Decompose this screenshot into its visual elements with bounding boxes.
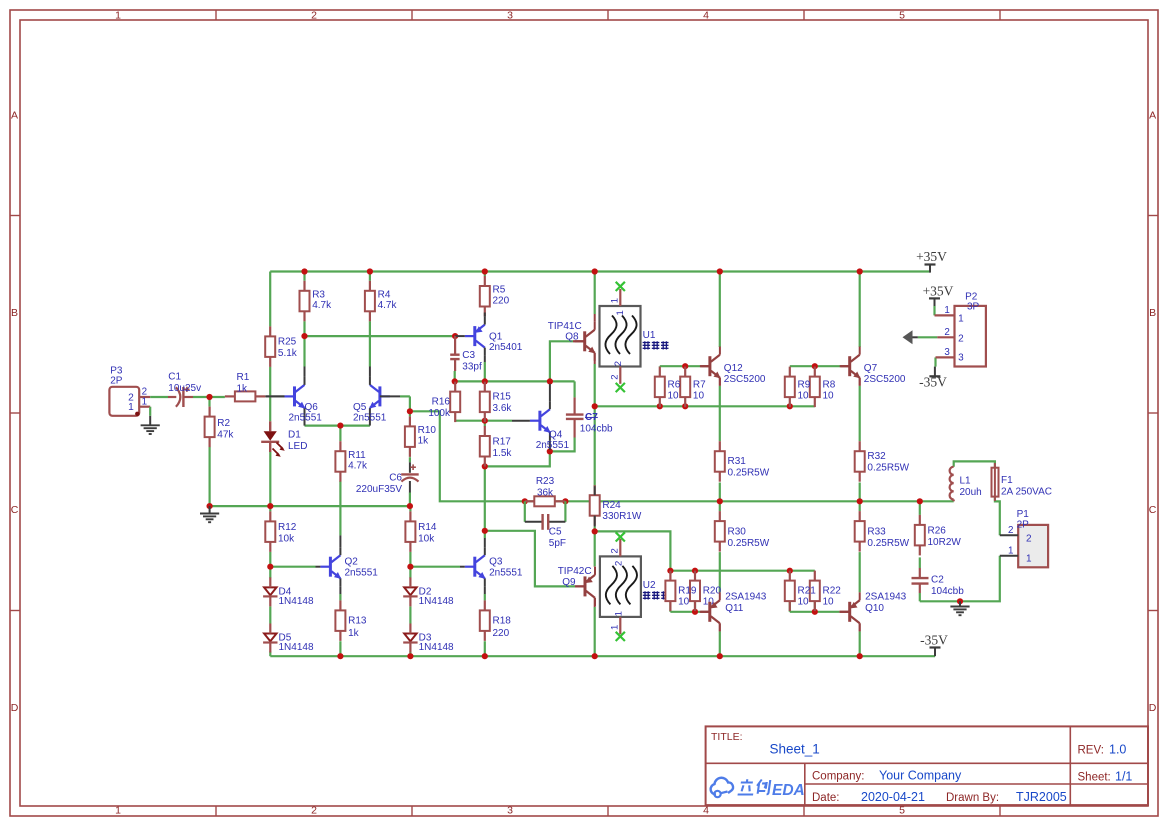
resistor R13 1k bbox=[335, 600, 366, 641]
junction bbox=[407, 408, 413, 414]
junction bbox=[667, 568, 673, 574]
svg-text:2: 2 bbox=[613, 361, 624, 366]
svg-text:R8: R8 bbox=[823, 380, 836, 391]
wire Q10 collector to -35V rail bbox=[859, 631, 861, 656]
wire P1 pin 1 to speaker ground bbox=[920, 556, 1000, 602]
svg-text:2n5551: 2n5551 bbox=[289, 413, 323, 424]
svg-text:1N4148: 1N4148 bbox=[419, 642, 454, 653]
resistor R16 100k bbox=[450, 382, 460, 423]
wire R24 bottom node bbox=[594, 527, 596, 567]
power +35V top rail symbol bbox=[916, 249, 947, 273]
svg-text:2SC5200: 2SC5200 bbox=[864, 374, 906, 385]
svg-text:10: 10 bbox=[798, 597, 810, 608]
svg-text:A: A bbox=[1149, 110, 1156, 122]
svg-text:36k: 36k bbox=[537, 488, 554, 499]
svg-text:2n5551: 2n5551 bbox=[353, 413, 387, 424]
junction bbox=[592, 268, 598, 274]
svg-text:R21: R21 bbox=[798, 586, 817, 597]
svg-text:1: 1 bbox=[115, 805, 121, 817]
wire R12 stubs bbox=[269, 506, 271, 578]
svg-text:1: 1 bbox=[609, 298, 620, 303]
junction bbox=[407, 503, 413, 509]
wire input node: C1 to R1, R2 top bbox=[193, 397, 225, 407]
transistor Q3 2n5551 bbox=[460, 538, 523, 594]
wire Q7 collector to rail bbox=[859, 272, 861, 348]
capacitor C2 104cbb bbox=[912, 568, 965, 597]
junction bbox=[267, 503, 273, 509]
junction bbox=[337, 653, 343, 659]
connector P3 2P bbox=[109, 366, 150, 416]
wire ground line left bbox=[210, 505, 410, 507]
svg-text:10: 10 bbox=[668, 390, 680, 401]
svg-text:1k: 1k bbox=[348, 628, 360, 639]
junction bbox=[407, 653, 413, 659]
transistor Q2 2n5551 bbox=[316, 535, 379, 594]
resistor R2 47k bbox=[205, 407, 235, 448]
diode D1 LED bbox=[261, 421, 307, 457]
junction bbox=[482, 528, 488, 534]
resistor R10 1k bbox=[405, 416, 436, 457]
svg-text:4.7k: 4.7k bbox=[348, 461, 368, 472]
connector P2 3P bbox=[935, 292, 986, 367]
ground symbol under P3 bbox=[149, 416, 151, 426]
svg-text:R3: R3 bbox=[312, 289, 325, 300]
resistor R8 10 bbox=[810, 367, 836, 408]
svg-text:B: B bbox=[1149, 307, 1156, 319]
svg-text:R17: R17 bbox=[493, 436, 512, 447]
resistor R15 3.6k bbox=[480, 382, 513, 423]
svg-text:R13: R13 bbox=[348, 615, 367, 626]
svg-text:Q4: Q4 bbox=[549, 430, 563, 441]
svg-text:10u25v: 10u25v bbox=[168, 383, 201, 394]
wire R3/Q6-collector node to Q1 base bbox=[305, 321, 456, 366]
svg-text:R26: R26 bbox=[928, 525, 947, 536]
wire output rail to L1 bbox=[919, 501, 921, 515]
svg-text:0.25R5W: 0.25R5W bbox=[867, 463, 909, 474]
svg-text:TJR2005: TJR2005 bbox=[1016, 790, 1067, 804]
svg-text:Q8: Q8 bbox=[565, 332, 579, 343]
resistor R25 5.1k bbox=[265, 326, 298, 367]
junction bbox=[482, 418, 488, 424]
connector P1 2P bbox=[1000, 509, 1048, 567]
svg-text:2P: 2P bbox=[110, 376, 123, 387]
svg-text:1N4148: 1N4148 bbox=[419, 596, 454, 607]
wire -35V bottom rail bbox=[270, 655, 935, 657]
wire +35V to P2 pin 1 bbox=[933, 306, 935, 315]
wire R13 bottom to -35V rail bbox=[339, 641, 341, 656]
no-connect flag U2 pin2 bbox=[616, 532, 625, 541]
diode D5 1N4148 bbox=[263, 624, 314, 654]
svg-text:R5: R5 bbox=[493, 285, 506, 296]
junction bbox=[657, 403, 663, 409]
svg-text:R15: R15 bbox=[493, 392, 512, 403]
power +35V P2 symbol bbox=[923, 283, 954, 306]
wire R9 R8 line to Q7 base bbox=[790, 365, 841, 367]
svg-text:1: 1 bbox=[958, 313, 964, 324]
svg-text:Q1: Q1 bbox=[489, 332, 503, 343]
fuse F1 2A 250VAC bbox=[992, 463, 1052, 501]
svg-text:C6: C6 bbox=[389, 473, 402, 484]
junction bbox=[337, 423, 343, 429]
junction bbox=[682, 363, 688, 369]
junction bbox=[787, 403, 793, 409]
svg-text:2: 2 bbox=[1026, 533, 1032, 544]
svg-text:+35V: +35V bbox=[916, 249, 947, 264]
svg-text:U2: U2 bbox=[643, 580, 656, 591]
svg-text:1.0: 1.0 bbox=[1109, 743, 1126, 757]
junction bbox=[857, 653, 863, 659]
wire Q9 collector to -35V rail bbox=[594, 607, 596, 656]
wire emitter resistor line y406 bbox=[595, 405, 815, 407]
resistor R31 0.25R5W bbox=[715, 441, 770, 482]
transistor Q1 2n5401 PNP bbox=[455, 313, 523, 363]
wire Q5 base to R10/feedback node bbox=[400, 396, 410, 411]
wire R1 to Q6 base (dark pin) bbox=[265, 395, 284, 397]
svg-text:4.7k: 4.7k bbox=[378, 300, 398, 311]
svg-text:2n5401: 2n5401 bbox=[489, 342, 523, 353]
svg-text:10: 10 bbox=[823, 390, 835, 401]
svg-text:5: 5 bbox=[899, 10, 905, 22]
junction bbox=[857, 268, 863, 274]
transistor Q4 2n5551 bbox=[512, 384, 570, 451]
U1 pin numbers and labels bbox=[609, 298, 655, 380]
svg-text:2: 2 bbox=[609, 548, 620, 553]
junction bbox=[482, 268, 488, 274]
svg-text:2: 2 bbox=[609, 375, 620, 380]
junction bbox=[301, 333, 307, 339]
svg-text:D: D bbox=[11, 702, 19, 714]
svg-text:R6: R6 bbox=[668, 380, 681, 391]
svg-text:1.5k: 1.5k bbox=[493, 448, 513, 459]
svg-text:R11: R11 bbox=[348, 450, 366, 461]
ground symbol P2 pin2 (left arrow) bbox=[903, 330, 918, 344]
capacitor C1 10u25v polarized bbox=[150, 372, 201, 407]
svg-text:C7: C7 bbox=[585, 412, 598, 423]
U2 pin numbers and labels bbox=[609, 548, 656, 630]
junction bbox=[267, 564, 273, 570]
wire Q4 emitter node to C7 bottom bbox=[550, 438, 575, 452]
junction bbox=[301, 268, 307, 274]
wire C3/R16/R15 node line to C7 top bbox=[455, 362, 575, 397]
wire R24 node to R19/R20 top line bbox=[595, 531, 671, 570]
svg-text:1: 1 bbox=[142, 397, 147, 408]
transistor Q12 2SC5200 bbox=[700, 347, 766, 386]
wire Q3 collector stub bbox=[484, 531, 486, 538]
wire R30 bottom to Q11 emitter bbox=[719, 552, 721, 592]
svg-text:3: 3 bbox=[958, 352, 964, 363]
resistor R6 10 bbox=[655, 367, 681, 408]
transistor Q10 2SA1943 PNP bbox=[839, 591, 906, 631]
svg-text:10k: 10k bbox=[278, 533, 295, 544]
svg-text:D1: D1 bbox=[288, 429, 301, 440]
svg-text:-35V: -35V bbox=[920, 632, 948, 647]
svg-text:R30: R30 bbox=[728, 527, 747, 538]
LCEDA logo bbox=[711, 778, 805, 799]
svg-text:R2: R2 bbox=[217, 418, 230, 429]
wire x595 column to R24 bbox=[594, 406, 596, 486]
svg-text:10: 10 bbox=[693, 390, 705, 401]
svg-text:3: 3 bbox=[944, 347, 950, 358]
svg-text:1: 1 bbox=[115, 10, 121, 22]
wire R2 bottom to ground line bbox=[209, 447, 211, 506]
wire R11 bottom to Q2 collector bbox=[339, 481, 341, 536]
resistor R23 36k bbox=[525, 476, 566, 506]
wire R17 bottom to Q4 emitter node bbox=[485, 451, 550, 530]
junction bbox=[717, 268, 723, 274]
resistor R11 4.7k bbox=[335, 441, 368, 482]
svg-text:20uh: 20uh bbox=[960, 487, 982, 498]
junction bbox=[787, 568, 793, 574]
wire D2-D3 link bbox=[409, 607, 411, 624]
junction bbox=[717, 653, 723, 659]
junction bbox=[207, 503, 213, 509]
svg-text:5: 5 bbox=[899, 805, 905, 817]
svg-text:R24: R24 bbox=[602, 500, 621, 511]
resistor R9 10 bbox=[785, 367, 811, 408]
svg-text:R19: R19 bbox=[678, 586, 697, 597]
svg-text:1: 1 bbox=[1026, 554, 1032, 565]
junction bbox=[682, 403, 688, 409]
svg-text:3: 3 bbox=[507, 10, 513, 22]
svg-text:R4: R4 bbox=[378, 289, 391, 300]
svg-text:5.1k: 5.1k bbox=[278, 348, 298, 359]
svg-text:2SC5200: 2SC5200 bbox=[724, 374, 766, 385]
svg-text:R9: R9 bbox=[798, 380, 811, 391]
svg-text:C5: C5 bbox=[549, 526, 562, 537]
svg-text:Company:: Company: bbox=[812, 771, 864, 783]
wire L1 top to F1 bbox=[954, 461, 995, 467]
transistor Q7 2SC5200 bbox=[840, 347, 906, 386]
wire R30 top stub bbox=[719, 501, 721, 511]
svg-text:+35V: +35V bbox=[923, 283, 954, 298]
svg-text:R23: R23 bbox=[536, 476, 555, 487]
wire D3 to -35V rail bbox=[409, 652, 411, 657]
svg-text:2n5551: 2n5551 bbox=[489, 568, 523, 579]
ground symbol input bias bbox=[209, 506, 211, 513]
resistor R12 10k bbox=[265, 511, 296, 552]
svg-text:104cbb: 104cbb bbox=[580, 423, 613, 434]
svg-text:2P: 2P bbox=[1017, 519, 1030, 530]
wire feedback node to output rail bbox=[410, 411, 525, 501]
svg-text:Q6: Q6 bbox=[305, 402, 319, 413]
capacitor C6 220uF35V polarized bbox=[356, 462, 419, 495]
junction bbox=[917, 498, 923, 504]
svg-text:C: C bbox=[11, 504, 19, 516]
junction bbox=[857, 498, 863, 504]
wire Q2 base line from R12/D4 node bbox=[270, 566, 315, 568]
svg-text:1: 1 bbox=[1008, 545, 1013, 556]
wire R14/D2 node and Q3 base line bbox=[410, 506, 460, 578]
svg-text:4: 4 bbox=[703, 10, 709, 22]
svg-text:Q2: Q2 bbox=[345, 557, 359, 568]
svg-text:1N4148: 1N4148 bbox=[279, 642, 314, 653]
svg-text:0.25R5W: 0.25R5W bbox=[728, 468, 770, 479]
junction bbox=[547, 378, 553, 384]
wire C2 bottom stub bbox=[919, 593, 921, 601]
diode D2 1N4148 bbox=[403, 577, 454, 607]
svg-text:220: 220 bbox=[493, 628, 510, 639]
svg-text:47k: 47k bbox=[217, 429, 234, 440]
svg-text:R1: R1 bbox=[237, 372, 250, 383]
wire output rail center bbox=[525, 500, 954, 502]
wire Q12 collector to rail bbox=[719, 272, 721, 348]
transistor Q9 TIP42C PNP bbox=[558, 566, 595, 607]
wire Q8 emitter down x595 column bbox=[594, 364, 596, 406]
junction bbox=[547, 448, 553, 454]
resistor R30 0.25R5W bbox=[715, 511, 770, 551]
svg-text:10R2W: 10R2W bbox=[928, 537, 962, 548]
svg-text:R16: R16 bbox=[432, 397, 451, 408]
wire R10 top stub bbox=[409, 411, 411, 416]
wire R26 to C2 bbox=[919, 557, 921, 568]
junction bbox=[452, 333, 458, 339]
svg-text:REV:: REV: bbox=[1078, 745, 1104, 757]
svg-text:Q11: Q11 bbox=[725, 603, 744, 614]
resistor R18 220 bbox=[480, 600, 511, 641]
svg-text:10: 10 bbox=[678, 597, 690, 608]
wire Q9 base from Q3 collector node bbox=[485, 531, 576, 587]
svg-text:104cbb: 104cbb bbox=[931, 586, 964, 597]
wire D1 cathode to ground line bbox=[269, 452, 271, 506]
wire Q8 base down to node line bbox=[550, 341, 573, 381]
capacitor C7 104cbb bbox=[566, 397, 613, 437]
resistor R19 10 bbox=[665, 571, 696, 612]
svg-text:10: 10 bbox=[798, 390, 810, 401]
wire R32 bottom to rail / R33 top bbox=[859, 483, 861, 512]
svg-text:R33: R33 bbox=[867, 527, 886, 538]
svg-text:0.25R5W: 0.25R5W bbox=[867, 538, 909, 549]
no-connect flag U2 pin1 bbox=[616, 632, 625, 641]
capacitor C3 33pf bbox=[450, 336, 482, 373]
svg-text:R18: R18 bbox=[493, 615, 512, 626]
junction bbox=[482, 463, 488, 469]
svg-text:B: B bbox=[11, 307, 18, 319]
wire P2 pin 3 to -35V bbox=[934, 357, 936, 366]
svg-text:Q5: Q5 bbox=[353, 402, 367, 413]
wire Q6/Q5 emitters to R11 top bbox=[305, 426, 370, 442]
wire R31 bottom to output rail bbox=[719, 483, 721, 502]
wire R20 bottom stub bbox=[694, 602, 696, 612]
svg-text:R20: R20 bbox=[703, 586, 722, 597]
svg-text:D: D bbox=[1149, 702, 1157, 714]
svg-text:R22: R22 bbox=[823, 586, 842, 597]
svg-text:2SA1943: 2SA1943 bbox=[725, 591, 767, 602]
wire R21/R22 to Q10 base line bbox=[790, 611, 840, 613]
svg-text:R32: R32 bbox=[867, 451, 886, 462]
svg-text:Drawn By:: Drawn By: bbox=[946, 792, 999, 804]
junction bbox=[957, 598, 963, 604]
transistor Q6 2n5551 bbox=[266, 367, 322, 426]
svg-text:1: 1 bbox=[128, 402, 134, 413]
svg-text:C: C bbox=[1149, 504, 1157, 516]
svg-text:TITLE:: TITLE: bbox=[711, 731, 743, 743]
svg-text:1: 1 bbox=[614, 611, 625, 616]
wire C6 bottom to ground line bbox=[409, 493, 411, 507]
svg-text:R7: R7 bbox=[693, 380, 706, 391]
junction bbox=[592, 653, 598, 659]
wire Q3 emitter to R18 bbox=[484, 594, 486, 600]
svg-text:3P: 3P bbox=[967, 302, 980, 313]
svg-text:2n5551: 2n5551 bbox=[345, 568, 379, 579]
svg-text:C3: C3 bbox=[462, 350, 475, 361]
svg-text:TIP42C: TIP42C bbox=[558, 566, 592, 577]
power -35V P2 symbol bbox=[919, 367, 947, 390]
svg-text:R25: R25 bbox=[278, 337, 297, 348]
svg-text:2: 2 bbox=[311, 805, 317, 817]
svg-text:4.7k: 4.7k bbox=[312, 300, 332, 311]
svg-text:10: 10 bbox=[823, 597, 835, 608]
wire base resistor top line y570 bbox=[670, 570, 814, 572]
junction bbox=[452, 378, 458, 384]
svg-text:1N4148: 1N4148 bbox=[279, 596, 314, 607]
no-connect flag U1 pin1 bbox=[616, 282, 625, 291]
wire driver bias line R6 R7 to Q12 base bbox=[660, 365, 701, 367]
R24 dark pins bbox=[594, 486, 596, 526]
resistor R17 1.5k bbox=[480, 426, 513, 467]
resistor R14 10k bbox=[405, 511, 436, 552]
junction bbox=[206, 394, 212, 400]
wire Q11 collector to -35V rail bbox=[719, 631, 721, 656]
svg-text:0.25R5W: 0.25R5W bbox=[728, 538, 770, 549]
svg-text:5pF: 5pF bbox=[549, 538, 566, 549]
wire R21 bottom stub bbox=[789, 602, 791, 612]
svg-text:1k: 1k bbox=[237, 384, 249, 395]
wire P2 pin 2 to ground-left bbox=[918, 336, 938, 338]
junction bbox=[717, 498, 723, 504]
junction bbox=[592, 403, 598, 409]
wire Q2 emitter to R13 bbox=[339, 594, 341, 600]
svg-text:33pf: 33pf bbox=[462, 362, 482, 373]
svg-text:R31: R31 bbox=[728, 456, 747, 467]
wire R4 to Q5 collector bbox=[369, 321, 371, 366]
title block bbox=[706, 726, 1148, 805]
svg-text:Your Company: Your Company bbox=[879, 769, 962, 783]
wire R6 top stub bbox=[659, 365, 661, 368]
svg-text:1: 1 bbox=[615, 310, 626, 315]
ground symbol speaker return bbox=[959, 601, 961, 606]
junction bbox=[407, 564, 413, 570]
svg-text:Sheet:: Sheet: bbox=[1078, 772, 1111, 784]
junction bbox=[592, 528, 598, 534]
junction bbox=[367, 268, 373, 274]
svg-text:1: 1 bbox=[609, 625, 620, 630]
no-connect flag U1 pin2 bbox=[616, 383, 625, 392]
svg-text:L1: L1 bbox=[960, 475, 972, 486]
wire R22 bottom stub bbox=[814, 602, 816, 612]
svg-text:10k: 10k bbox=[418, 533, 435, 544]
junction bbox=[812, 363, 818, 369]
svg-text:EDA: EDA bbox=[772, 782, 805, 799]
svg-text:R10: R10 bbox=[418, 425, 437, 436]
svg-text:220uF35V: 220uF35V bbox=[356, 484, 402, 495]
wire F1 bottom to P1 pin 2 bbox=[995, 497, 1000, 536]
svg-text:2: 2 bbox=[311, 10, 317, 22]
resistor R24 330R1W bbox=[590, 485, 642, 526]
junction bbox=[692, 609, 698, 615]
svg-text:4: 4 bbox=[703, 805, 709, 817]
resistor R22 10 bbox=[810, 571, 841, 612]
wire R25 bottom through to D1 bbox=[269, 367, 271, 422]
wire Q7 emitter to R32 bbox=[859, 386, 861, 441]
capacitor C5 5pF bbox=[525, 501, 566, 549]
svg-text:2020-04-21: 2020-04-21 bbox=[861, 790, 925, 804]
wire +35V top rail bbox=[270, 270, 930, 272]
resistor R5 220 bbox=[480, 276, 510, 317]
svg-text:220: 220 bbox=[493, 295, 510, 306]
svg-text:1/1: 1/1 bbox=[1115, 770, 1132, 784]
junction bbox=[562, 498, 568, 504]
wire rail stubs to R3 R4 R5 bbox=[270, 272, 485, 327]
